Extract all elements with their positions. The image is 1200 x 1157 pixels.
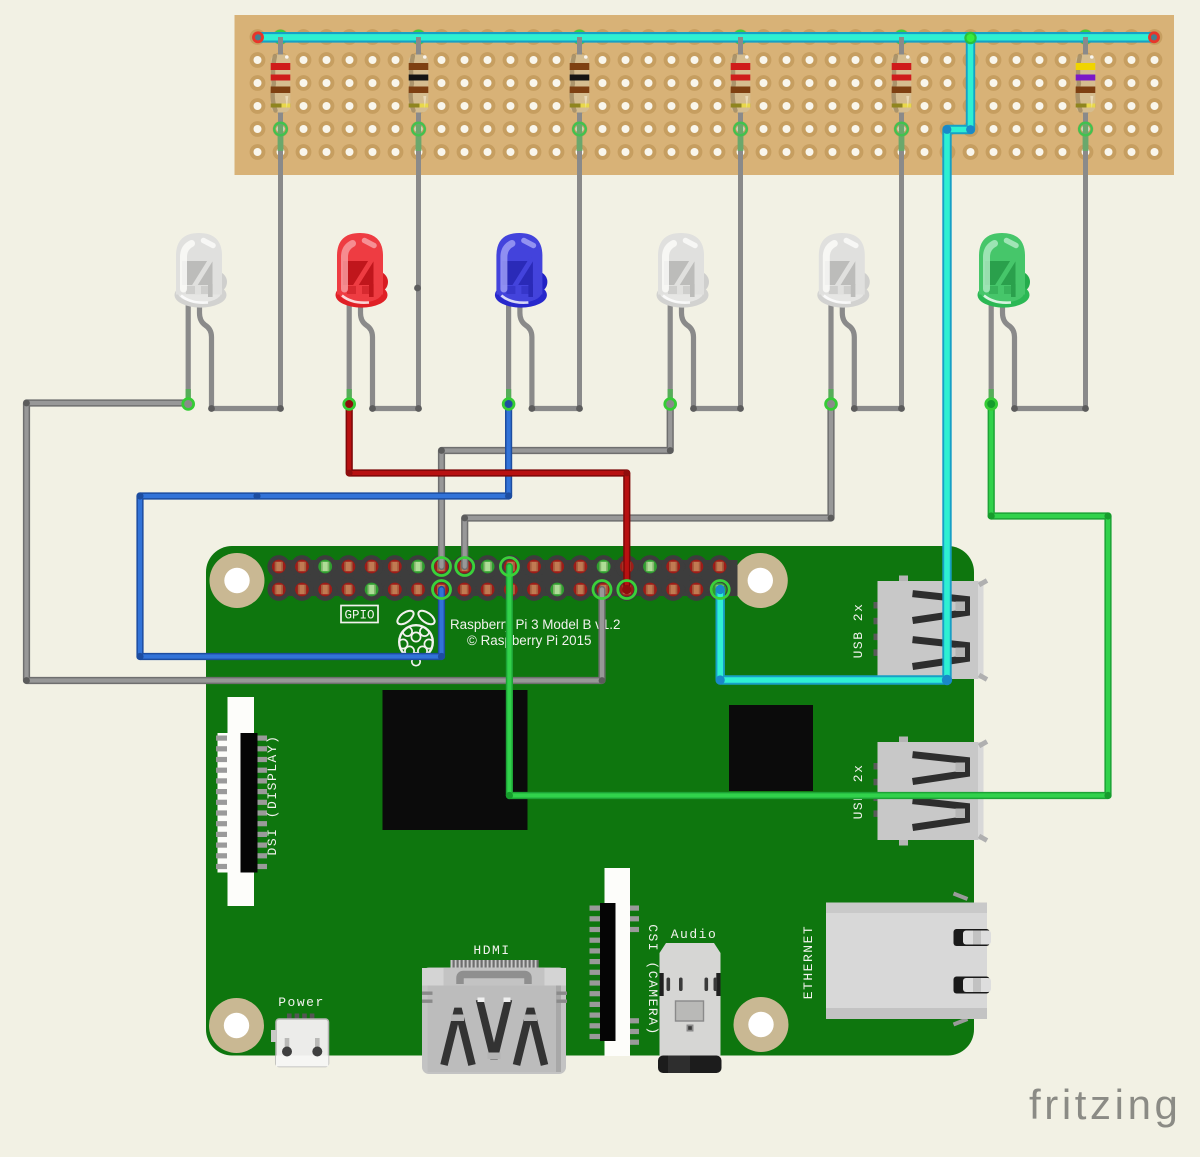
audio jack J6 [658,943,722,1073]
DSI display connector J2 [216,697,267,906]
LED5 cathode connection dot [826,399,837,410]
LED1 white bulb [175,233,228,308]
resistor R6 [1076,37,1096,409]
svg-text:fritzing: fritzing [1029,1081,1182,1128]
mounting hole [209,998,264,1053]
svg-text:Raspberry Pi 3 Model B v1.2: Raspberry Pi 3 Model B v1.2 [450,617,620,632]
wire W6 green LED6 to GPIO25 [509,405,1108,796]
svg-text:DSI (DISPLAY): DSI (DISPLAY) [265,735,280,856]
leg bendpoint dots LED3 [529,405,536,412]
power micro-USB connector J4 [271,1014,329,1067]
GPIO pins [272,560,727,597]
LED4 cathode connection dot [665,399,676,410]
lead joint dot R2 [414,285,421,292]
wire W2 gray LED4 to GPIO13 [442,405,671,567]
rail left endpoint [254,33,263,42]
LED5 white bulb [817,233,870,308]
svg-text:Audio: Audio [671,927,718,942]
wire W1 gray LED1 to GPIO5 [27,403,603,681]
LED5 white legs [831,298,902,409]
leg bendpoint dots LED2 [369,405,376,412]
Ethernet jack J7 [826,894,991,1025]
LED3 blue bulb [495,233,548,308]
Raspberry Pi 3 board U1 [206,546,974,1056]
mounting hole [733,553,788,608]
node: resistor R5 top hole connection [895,31,907,43]
USB 2x stack J8 [874,576,988,685]
resistor R4 [731,37,751,409]
node: resistor R2 top hole connection [412,31,424,43]
USB/LAN controller chip U3 [729,705,813,791]
LED3 blue legs [509,298,580,409]
wire W3 gray LED5 to GPIO19 [465,405,831,567]
svg-text:© Raspberry Pi 2015: © Raspberry Pi 2015 [467,633,592,648]
silkscreen GPIO label [341,606,378,623]
node: resistor R4 top hole connection [734,31,746,43]
GPIO connection highlights [433,558,451,576]
svg-text:Power: Power [278,995,325,1010]
wire W4 red LED2 to GPIO6 [349,403,627,590]
LED6 green bulb [978,233,1031,308]
resistor R2 [409,37,429,409]
svg-text:HDMI: HDMI [473,943,510,958]
LED4 white bulb [657,233,710,308]
wire W5 blue LED3 to GPIO22 [140,403,509,657]
leg bendpoint dots LED5 [851,405,858,412]
wire cyan ground rail [258,32,1154,43]
resistor R1 [271,37,291,409]
wire W7 cyan ground to GPIO GND pin39 [720,38,970,680]
HDMI connector J3 [422,960,567,1074]
LED6 green legs [991,298,1085,409]
svg-text:ETHERNET: ETHERNET [801,925,816,999]
leg bendpoint dots LED4 [690,405,697,412]
node: resistor R6 top hole connection [1079,31,1091,43]
svg-text:CSI (CAMERA): CSI (CAMERA) [645,924,660,1036]
GPIO header J1 [267,555,737,601]
node: cyan wire junction on rail [964,32,976,44]
SoC chip U2 [383,690,528,830]
LED2 cathode connection dot [344,399,355,410]
mounting hole [210,553,265,608]
svg-text:USB 2x: USB 2x [851,764,866,820]
LED4 white legs [670,298,740,409]
LED1 cathode connection dot [183,399,194,410]
USB 2x stack J9 [874,737,988,846]
LED2 red bulb [336,233,389,308]
silkscreen raspberry logo [395,608,437,666]
node: resistor R1 top hole connection [274,31,286,43]
LED1 white legs [188,298,280,409]
mounting hole [734,997,789,1052]
node: resistor R3 top hole connection [573,31,585,43]
leg bendpoint dots LED6 [1011,405,1018,412]
resistor R5 [892,37,912,409]
CSI camera connector J5 [590,868,640,1056]
leg bendpoint dots LED1 [208,405,215,412]
svg-text:USB 2x: USB 2x [851,603,866,659]
svg-text:GPIO: GPIO [344,609,374,623]
LED6 cathode connection dot [986,399,997,410]
LED3 cathode connection dot [503,399,514,410]
perfboard [235,15,1175,175]
resistor R3 [570,37,590,409]
rail right endpoint [1150,33,1159,42]
LED2 red legs [349,298,418,409]
